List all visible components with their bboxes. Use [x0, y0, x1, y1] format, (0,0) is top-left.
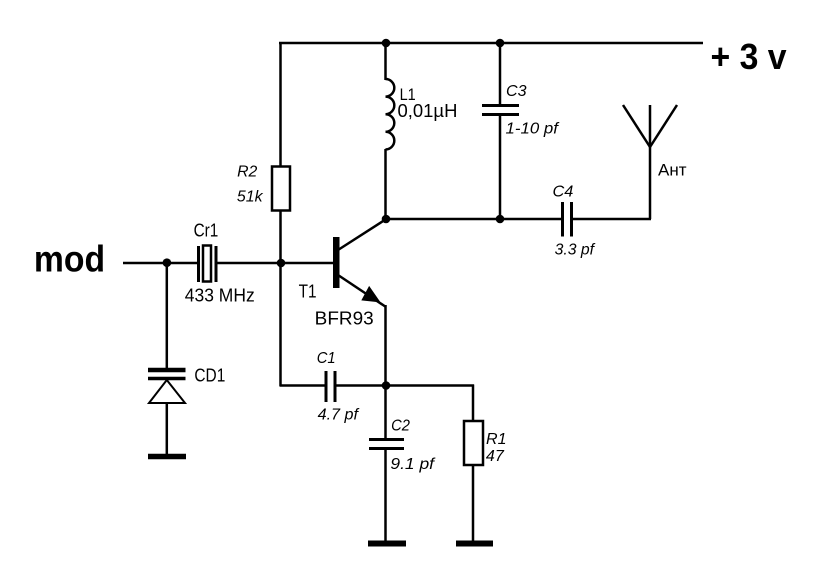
wire: L1 branch from +3V rail — [384, 43, 387, 80]
varicap diode CD1 — [148, 370, 186, 454]
svg-text:9.1 pf: 9.1 pf — [390, 456, 435, 473]
wire: L1 bottom to collector node — [384, 149, 387, 220]
resistor R2 — [272, 167, 290, 211]
label C2 value 9.1 pf — [390, 456, 435, 473]
inductor L1 — [386, 79, 395, 149]
wire: C1 to R1 row — [336, 384, 474, 387]
node: mod/CD1 junction — [163, 258, 172, 267]
capacitor C4 — [563, 202, 572, 237]
svg-text:BFR93: BFR93 — [315, 309, 374, 329]
wire: C2 bottom to ground — [384, 450, 387, 541]
transistor T1 collector line — [338, 219, 387, 251]
wire: mod input to crystal — [123, 262, 197, 265]
svg-text:Cr1: Cr1 — [194, 221, 219, 241]
label L1 value 0,01uH — [398, 101, 458, 121]
wire: C3 branch from +3V rail — [499, 43, 502, 104]
wire: CD1 branch down from mod line — [166, 263, 169, 369]
label BFR93 — [315, 309, 374, 329]
svg-text:R2: R2 — [237, 163, 257, 180]
label C4 — [553, 184, 574, 201]
svg-text:+ 3 v: + 3 v — [711, 36, 787, 77]
wire: R1 bottom to ground — [472, 465, 475, 541]
svg-text:433 MHz: 433 MHz — [185, 286, 255, 306]
label C3 value 1-10 pf — [506, 121, 560, 138]
node: L1 top junction on +3V rail — [382, 39, 391, 48]
wire: R2 branch from +3V rail down to R2 — [279, 42, 282, 167]
node: collector junction — [382, 215, 391, 224]
wire: C2 branch down from junction — [384, 386, 387, 439]
svg-text:1-10 pf: 1-10 pf — [506, 121, 560, 138]
svg-text:51k: 51k — [237, 188, 264, 205]
wire: C1 row left segment — [280, 384, 325, 387]
svg-text:C2: C2 — [391, 418, 410, 435]
label R1 value 47 — [486, 431, 507, 465]
svg-text:47: 47 — [486, 448, 505, 465]
capacitor C3 — [482, 106, 519, 115]
label T1 — [299, 282, 317, 302]
svg-text:4.7 pf: 4.7 pf — [318, 407, 360, 424]
svg-text:C4: C4 — [553, 184, 574, 201]
label CD1 — [194, 366, 225, 386]
resistor R1 — [464, 421, 483, 465]
label mod input — [34, 239, 105, 280]
wire: +3V top rail — [279, 42, 703, 45]
node: C3 top junction on +3V rail — [496, 39, 505, 48]
label +3V — [711, 36, 787, 77]
svg-text:C1: C1 — [317, 350, 336, 367]
node: base/R2 junction — [277, 259, 286, 268]
svg-text:mod: mod — [34, 239, 105, 280]
label Cr1 — [194, 221, 219, 241]
wire: collector row to C4 — [500, 218, 561, 221]
label C1 value 4.7 pf — [318, 407, 360, 424]
label R2 value 51k — [237, 163, 264, 205]
label C3 — [506, 83, 527, 100]
svg-text:3.3 pf: 3.3 pf — [555, 242, 596, 259]
wire: C4 to antenna — [573, 218, 651, 221]
svg-text:T1: T1 — [299, 282, 317, 302]
label antenna — [658, 160, 687, 179]
label L1 — [400, 85, 416, 104]
wire: C3 bottom to collector row — [499, 116, 502, 219]
crystal Cr1 — [199, 246, 217, 283]
wire: down to R1 — [472, 385, 475, 422]
svg-text:Ант: Ант — [658, 160, 687, 179]
wire: collector row to C3 — [386, 218, 500, 221]
wire: base node down to C1 row — [279, 263, 282, 387]
svg-text:C3: C3 — [506, 83, 527, 100]
capacitor C1 — [326, 371, 335, 402]
wire: crystal to transistor base — [217, 262, 334, 265]
transistor T1 emitter line with arrow — [338, 275, 386, 307]
label C2 — [391, 418, 410, 435]
node: C3/collector row junction — [496, 215, 505, 224]
capacitor C2 — [369, 440, 404, 449]
wire: antenna vertical feed — [649, 105, 652, 219]
svg-text:CD1: CD1 — [194, 366, 225, 386]
ground: CD1 ground bar — [148, 454, 186, 460]
ground: R1 ground bar — [456, 541, 493, 547]
transistor T1 base bar — [333, 237, 340, 288]
node: emitter/C1/C2 junction — [382, 381, 391, 390]
label 433 MHz — [185, 286, 255, 306]
label C1 — [317, 350, 336, 367]
antenna symbol — [623, 105, 677, 147]
svg-text:R1: R1 — [486, 431, 507, 448]
wire: emitter down to C1/C2 node — [384, 305, 387, 386]
label C4 value 3.3 pf — [555, 242, 596, 259]
svg-text:0,01µH: 0,01µH — [398, 101, 458, 121]
ground: C2 ground bar — [368, 541, 406, 547]
wire: R2 bottom to base node — [279, 210, 282, 264]
